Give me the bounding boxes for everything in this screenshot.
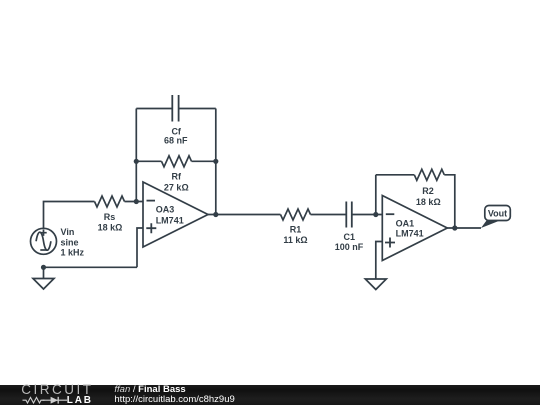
wire R1 to C1: [311, 214, 347, 216]
logo squiggle resistor+diode: [23, 397, 68, 404]
logo CIRCUIT text: [21, 382, 93, 397]
wire source top to Rs: [44, 202, 95, 229]
capacitor Cf: [172, 95, 178, 122]
op-amp OA3: [143, 182, 208, 247]
credit line author/title: [114, 384, 234, 405]
footer bar: [0, 385, 540, 405]
svg-text:LAB: LAB: [67, 395, 93, 405]
node junction J5 (OA3 output): [213, 212, 218, 217]
resistor R2: [414, 169, 444, 180]
node junction J4 (source bottom): [41, 265, 46, 270]
label C1 100nF: [335, 232, 364, 252]
ground GND2: [365, 279, 386, 290]
label OA1 LM741: [396, 218, 424, 238]
wire Cf left lead: [136, 108, 172, 110]
capacitor C1: [346, 202, 352, 228]
wire R2 top left lead: [376, 174, 415, 176]
resistor Rf: [162, 156, 192, 167]
label Rs 18k: [98, 212, 123, 232]
wire Rs to op-amp OA3 inverting input: [125, 201, 144, 203]
wire OA1 output: [447, 227, 481, 229]
label Rf 27k: [164, 171, 189, 192]
node junction J2 (Rf left): [134, 159, 139, 164]
ground GND1: [33, 279, 54, 290]
wire R2 right lead and vertical: [444, 175, 455, 228]
wire OA1 + input to ground: [376, 242, 383, 280]
wire OA3 output: [208, 214, 281, 216]
node junction J3 (Rf right): [213, 159, 218, 164]
wire feedback left vertical: [135, 109, 137, 202]
label Vin sine 1kHz: [61, 227, 85, 257]
resistor R1: [281, 209, 311, 220]
wire feedback right vertical: [215, 109, 217, 215]
op-amp OA1: [382, 196, 447, 261]
logo LAB text: [67, 395, 93, 405]
wire R2 feedback left vertical: [375, 175, 377, 215]
wire C1 to OA1 inverting input: [352, 214, 383, 216]
label Cf 68nF: [164, 127, 188, 146]
node junction J6 (OA1 - input): [373, 212, 378, 217]
node junction J1 (feedback to - input): [134, 199, 139, 204]
wire Cf right lead: [179, 108, 216, 110]
svg-text:http://circuitlab.com/c8hz9u9: http://circuitlab.com/c8hz9u9: [114, 394, 234, 405]
label R1 11k: [283, 224, 307, 245]
resistor Rs: [95, 196, 125, 207]
voltage source V1 Vin: [31, 228, 57, 254]
label OA3 LM741: [156, 205, 184, 226]
label R2 18k: [416, 186, 441, 207]
node junction J7 (OA1 output): [452, 225, 457, 230]
wire bottom rail: [44, 266, 138, 268]
flag Vout: [481, 206, 510, 229]
wire OA3 + input to ground rail: [137, 228, 143, 267]
wire Rf left lead: [136, 160, 161, 162]
wire source to ground stub: [43, 267, 45, 278]
wire Rf right lead: [192, 160, 216, 162]
